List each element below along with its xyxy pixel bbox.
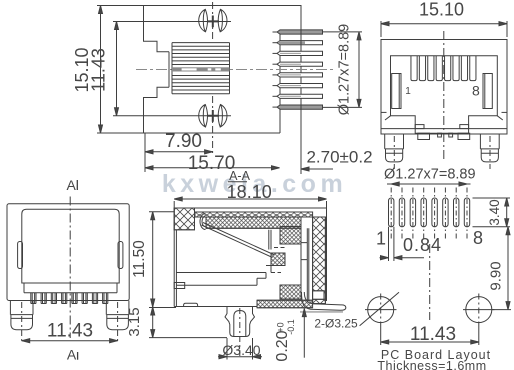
pad pitch dimension line xyxy=(387,182,471,186)
section right inner wall lines xyxy=(307,228,309,300)
pin 4 top view xyxy=(273,62,323,66)
rear view inner panel xyxy=(22,209,119,283)
top view back face line xyxy=(279,30,281,134)
pcb surface gray band xyxy=(300,311,343,313)
rear teeth row xyxy=(31,293,108,304)
contact slot 2 xyxy=(419,56,425,81)
svg-text:18.10: 18.10 xyxy=(227,182,272,202)
emi tab bottom right crescent xyxy=(218,105,227,128)
dimension 11.50 xyxy=(131,212,176,308)
section right shield column xyxy=(313,217,326,304)
section shield curl xyxy=(200,214,206,230)
svg-text:+0: +0 xyxy=(276,322,286,332)
contact slot 5 xyxy=(445,56,451,81)
pin 5 top view xyxy=(273,73,323,77)
dimension 18.10 xyxy=(174,182,326,209)
section contact spring xyxy=(202,223,275,258)
emi tab top center cross xyxy=(207,16,219,28)
dimension 7.90 xyxy=(145,131,213,172)
bottom tiny tab b xyxy=(449,133,453,137)
svg-text:15.10: 15.10 xyxy=(419,0,464,20)
dimension 15.10 left xyxy=(72,6,103,134)
svg-text:Ø1.27x7=8.89: Ø1.27x7=8.89 xyxy=(337,24,353,116)
section foot relief box xyxy=(313,291,324,300)
dimension 2-Ø3.25 leader xyxy=(314,292,399,330)
mounting hole left xyxy=(365,294,397,327)
contact slot 1 xyxy=(411,56,417,81)
pad 1 xyxy=(389,198,394,227)
dimension 15.70 xyxy=(145,153,280,174)
svg-text:11.43: 11.43 xyxy=(47,321,93,342)
svg-text:3.40: 3.40 xyxy=(487,199,502,225)
front view outer rect xyxy=(381,40,507,135)
dimension 11.43 left xyxy=(89,22,119,116)
dimension 9.90 xyxy=(488,227,512,310)
section left wall window xyxy=(174,283,185,289)
svg-text:8: 8 xyxy=(472,83,480,99)
bottom tiny tab a xyxy=(438,133,442,137)
emi tab bottom crosshair xyxy=(113,115,231,117)
dimension 15.10 top-right xyxy=(381,0,507,37)
latch window left xyxy=(392,74,401,109)
pin 3 top view xyxy=(273,51,323,55)
svg-text:11.50: 11.50 xyxy=(131,240,148,278)
shield comb left edge xyxy=(171,43,173,94)
section bottom bump xyxy=(184,303,198,306)
section shield foot xyxy=(302,292,346,310)
pad 8 xyxy=(464,198,469,227)
rear post left xyxy=(10,301,33,342)
rear tray line xyxy=(24,283,117,293)
shield comb stripes xyxy=(172,43,230,94)
shield bottom seam line xyxy=(381,128,507,130)
front view port outline xyxy=(391,56,498,134)
section post xyxy=(225,307,255,359)
emi tab top crosshair xyxy=(113,21,231,23)
pad 3 xyxy=(410,198,415,227)
top view centerline horizontal xyxy=(136,69,333,71)
section arrow label A top xyxy=(67,177,78,193)
section contact anchor hatch xyxy=(271,253,285,266)
dimension 2.70±0.2 xyxy=(301,110,373,174)
layout centerline xyxy=(429,244,431,320)
section hidden line a xyxy=(274,247,285,249)
dimension 11.43 rear xyxy=(22,321,118,343)
dimension 0.84 xyxy=(380,227,443,261)
front view centerline xyxy=(443,31,445,161)
shield comb center band xyxy=(172,67,230,71)
svg-text:A: A xyxy=(67,177,77,193)
section top plastic hatch band xyxy=(206,217,301,228)
svg-text:2-Ø3.25: 2-Ø3.25 xyxy=(314,317,358,331)
shield seam tick right xyxy=(502,111,508,113)
svg-text:A-A: A-A xyxy=(229,169,251,183)
pin 7 top view xyxy=(273,94,323,98)
emi tab top centerline xyxy=(212,2,214,42)
dimension 11.43 layout xyxy=(381,324,479,345)
section shield top ellipse strip xyxy=(195,212,313,217)
pad 7 xyxy=(454,198,459,227)
section channel lines xyxy=(301,243,307,285)
section arrow label A bottom xyxy=(67,347,78,363)
dimension Ø3.40 xyxy=(218,338,262,360)
emi tab top left crescent xyxy=(199,9,208,32)
emi tab top right crescent xyxy=(218,9,227,32)
svg-text:A: A xyxy=(67,347,77,363)
pad 5 xyxy=(432,198,437,227)
pad 4 xyxy=(421,198,426,227)
front post right xyxy=(480,134,499,169)
svg-text:2.70±0.2: 2.70±0.2 xyxy=(306,148,372,167)
emi tab bottom centerline xyxy=(212,96,214,155)
pin 8 top view xyxy=(273,105,323,109)
rear view outer rect xyxy=(7,204,129,301)
rear view centerline xyxy=(69,197,71,339)
pin 1 top view xyxy=(273,30,323,34)
svg-text:9.90: 9.90 xyxy=(488,261,505,290)
svg-text:11.43: 11.43 xyxy=(410,324,456,345)
pad 2 xyxy=(399,198,404,227)
top view pin bend line xyxy=(300,30,302,111)
front post left xyxy=(385,134,404,169)
contact slot 3 xyxy=(428,56,434,81)
emi tab bottom left crescent xyxy=(199,105,208,128)
mounting hole right xyxy=(463,294,495,327)
rear post right xyxy=(106,301,129,342)
section plastic block lower xyxy=(280,285,301,299)
svg-text:-0.1: -0.1 xyxy=(286,319,296,335)
rear side tab left xyxy=(18,242,23,269)
top view body outline xyxy=(97,6,301,134)
port corner chamfer left xyxy=(385,116,391,120)
dimension 1.27x7=8.89 rotated xyxy=(323,24,363,116)
section carrier verticals xyxy=(269,230,271,250)
bottom bump right xyxy=(458,133,470,139)
latch window right xyxy=(483,74,492,109)
pin 2 top view xyxy=(273,41,323,45)
contact slot 4 xyxy=(436,56,442,81)
svg-text:1: 1 xyxy=(376,229,386,249)
shield comb right edge xyxy=(229,43,231,94)
dimension 0.20 xyxy=(274,309,306,362)
contact slot 8 xyxy=(470,56,476,81)
section plastic block upper xyxy=(280,227,301,245)
dimension 3.40 pads xyxy=(473,198,511,227)
contact slot 7 xyxy=(461,56,467,81)
svg-text:Ø3.40: Ø3.40 xyxy=(222,342,260,358)
tongue side notch right xyxy=(460,125,469,129)
section left shield block xyxy=(174,208,194,230)
svg-text:8: 8 xyxy=(473,228,483,248)
svg-text:11.43: 11.43 xyxy=(89,48,109,92)
pin 6 top view xyxy=(273,84,323,88)
section body outline xyxy=(174,208,326,307)
svg-text:3.15: 3.15 xyxy=(126,307,143,336)
rear side tab right xyxy=(118,242,123,269)
svg-text:Ø1.27x7=8.89: Ø1.27x7=8.89 xyxy=(384,167,476,183)
pad centerlines xyxy=(391,188,467,241)
svg-text:1: 1 xyxy=(405,86,411,97)
section bottom shield strip xyxy=(257,300,313,308)
shield seam tick left xyxy=(381,111,387,113)
contact slot 6 xyxy=(453,56,459,81)
port corner chamfer right xyxy=(497,116,503,120)
pad 6 xyxy=(443,198,448,227)
dimension 3.15 xyxy=(126,307,227,338)
svg-text:Thickness=1.6mm: Thickness=1.6mm xyxy=(377,359,486,370)
section label A-A xyxy=(228,169,251,183)
bottom bump left xyxy=(418,133,430,139)
svg-text:0.84: 0.84 xyxy=(403,235,442,255)
pin bend line over pins xyxy=(300,30,302,110)
emi tab bottom center cross xyxy=(207,110,219,122)
section floor steps xyxy=(176,266,271,286)
section hidden line b xyxy=(271,272,281,274)
tongue side notch left xyxy=(415,125,424,129)
svg-text:7.90: 7.90 xyxy=(165,131,202,152)
